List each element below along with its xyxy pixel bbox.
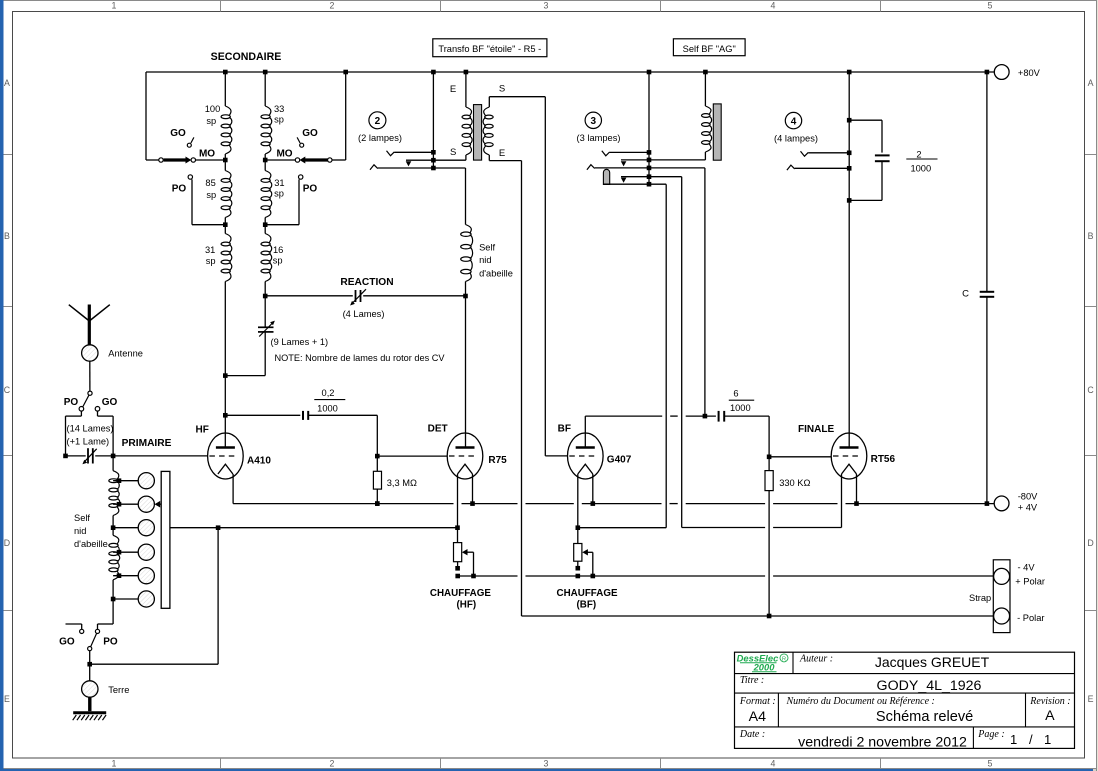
svg-text:Terre: Terre	[108, 685, 129, 695]
svg-text:-80V: -80V	[1018, 492, 1038, 502]
svg-text:NOTE: Nombre de lames du rotor: NOTE: Nombre de lames du rotor des CV	[275, 353, 446, 363]
svg-text:Strap: Strap	[969, 593, 991, 603]
svg-text:nid: nid	[74, 526, 86, 536]
svg-text:R: R	[782, 657, 786, 663]
svg-text:E: E	[1088, 694, 1094, 704]
svg-text:d'abeille: d'abeille	[479, 269, 513, 279]
svg-text:(9 Lames + 1): (9 Lames + 1)	[271, 337, 329, 347]
svg-text:E: E	[450, 84, 456, 95]
svg-text:Self: Self	[479, 243, 495, 253]
svg-text:A410: A410	[247, 456, 271, 467]
svg-text:3,3 MΩ: 3,3 MΩ	[387, 478, 417, 488]
svg-text:PO: PO	[172, 184, 187, 195]
svg-text:Transfo BF "étoile" - R5 -: Transfo BF "étoile" - R5 -	[438, 44, 541, 54]
svg-text:D: D	[1087, 538, 1093, 548]
svg-text:S: S	[499, 84, 505, 95]
svg-text:B: B	[1088, 231, 1094, 241]
svg-text:3: 3	[544, 0, 549, 10]
svg-text:- 4V: - 4V	[1018, 563, 1036, 573]
svg-text:E: E	[499, 148, 505, 159]
svg-text:1: 1	[112, 0, 117, 10]
svg-text:2: 2	[330, 759, 335, 769]
svg-text:(+1 Lame): (+1 Lame)	[67, 437, 110, 447]
svg-text:4: 4	[771, 0, 776, 10]
svg-text:Format :: Format :	[739, 696, 776, 707]
svg-text:1000: 1000	[317, 403, 338, 413]
svg-text:Schéma relevé: Schéma relevé	[876, 709, 973, 725]
svg-text:Date :: Date :	[739, 729, 765, 740]
svg-text:C: C	[4, 385, 11, 395]
svg-text:C: C	[962, 288, 969, 299]
svg-text:2: 2	[916, 149, 921, 159]
svg-text:6: 6	[733, 388, 738, 398]
svg-text:PO: PO	[103, 636, 118, 647]
svg-text:16: 16	[273, 245, 283, 255]
svg-text:CHAUFFAGE: CHAUFFAGE	[430, 588, 491, 599]
svg-text:Self: Self	[74, 513, 90, 523]
svg-text:(BF): (BF)	[577, 600, 597, 611]
svg-text:GO: GO	[170, 128, 186, 139]
svg-text:+ Polar: + Polar	[1015, 576, 1045, 586]
svg-text:PRIMAIRE: PRIMAIRE	[122, 438, 172, 449]
svg-text:(4 Lames): (4 Lames)	[343, 309, 385, 319]
svg-text:- Polar: - Polar	[1017, 613, 1044, 623]
svg-text:Auteur :: Auteur :	[799, 654, 833, 665]
svg-text:CHAUFFAGE: CHAUFFAGE	[557, 588, 618, 599]
svg-text:sp: sp	[274, 115, 284, 125]
svg-text:5: 5	[988, 759, 993, 769]
svg-text:Numéro du Document ou Référenc: Numéro du Document ou Référence :	[786, 696, 935, 707]
svg-text:A: A	[1088, 78, 1094, 88]
svg-text:(3 lampes): (3 lampes)	[577, 133, 621, 143]
svg-text:+ 4V: + 4V	[1018, 503, 1038, 513]
svg-text:sp: sp	[274, 189, 284, 199]
svg-text:SECONDAIRE: SECONDAIRE	[211, 51, 282, 63]
svg-text:Revision :: Revision :	[1029, 696, 1070, 707]
svg-text:GO: GO	[59, 636, 75, 647]
svg-text:(2 lampes): (2 lampes)	[358, 133, 402, 143]
svg-text:REACTION: REACTION	[340, 277, 393, 288]
svg-text:85: 85	[205, 178, 215, 188]
svg-text:PO: PO	[303, 184, 318, 195]
svg-text:Titre :: Titre :	[740, 675, 764, 686]
svg-text:3: 3	[591, 116, 597, 127]
svg-text:S: S	[450, 147, 456, 158]
svg-text:A: A	[4, 78, 10, 88]
svg-text:33: 33	[274, 104, 284, 114]
svg-text:sp: sp	[206, 116, 216, 126]
svg-text:Jacques GREUET: Jacques GREUET	[875, 654, 990, 670]
svg-text:1000: 1000	[730, 403, 751, 413]
svg-text:4: 4	[791, 117, 797, 128]
svg-text:d'abeille: d'abeille	[74, 539, 108, 549]
svg-text:0,2: 0,2	[322, 388, 335, 398]
svg-text:HF: HF	[196, 425, 209, 436]
svg-text:Antenne: Antenne	[108, 348, 143, 358]
svg-text:G407: G407	[607, 455, 632, 466]
svg-text:4: 4	[771, 759, 776, 769]
svg-text:B: B	[4, 231, 10, 241]
svg-text:A: A	[1045, 708, 1055, 724]
svg-text:R75: R75	[488, 455, 507, 466]
svg-text:100: 100	[205, 104, 221, 114]
svg-text:BF: BF	[558, 424, 571, 435]
svg-text:A4: A4	[749, 709, 766, 725]
svg-text:2: 2	[330, 0, 335, 10]
svg-text:D: D	[4, 538, 10, 548]
svg-text:sp: sp	[206, 190, 216, 200]
svg-text:(HF): (HF)	[457, 600, 477, 611]
svg-text:31: 31	[274, 178, 284, 188]
svg-text:Page :: Page :	[977, 729, 1004, 740]
svg-text:(14 Lames): (14 Lames)	[67, 423, 114, 433]
svg-text:sp: sp	[206, 256, 216, 266]
svg-text:1: 1	[1010, 732, 1017, 747]
svg-text:MO: MO	[276, 149, 292, 160]
svg-text:C: C	[1087, 385, 1094, 395]
svg-text:GO: GO	[102, 397, 118, 408]
svg-text:GODY_4L_1926: GODY_4L_1926	[877, 678, 982, 694]
svg-text:1: 1	[1044, 732, 1051, 747]
svg-text:2000: 2000	[753, 662, 776, 673]
svg-text:RT56: RT56	[871, 454, 896, 465]
svg-text:3: 3	[544, 759, 549, 769]
svg-text:GO: GO	[302, 128, 318, 139]
svg-text:5: 5	[988, 0, 993, 10]
svg-text:2: 2	[375, 116, 381, 127]
svg-text:+80V: +80V	[1018, 68, 1041, 78]
svg-text:sp: sp	[273, 256, 283, 266]
svg-text:1: 1	[112, 759, 117, 769]
svg-text:PO: PO	[64, 397, 79, 408]
svg-text:/: /	[1029, 732, 1033, 747]
svg-text:330 KΩ: 330 KΩ	[779, 478, 810, 488]
svg-text:FINALE: FINALE	[798, 424, 834, 435]
svg-text:(4 lampes): (4 lampes)	[774, 134, 818, 144]
svg-text:nid: nid	[479, 255, 491, 265]
svg-text:1000: 1000	[910, 164, 931, 174]
svg-text:E: E	[4, 694, 10, 704]
svg-text:DET: DET	[428, 424, 448, 435]
svg-text:31: 31	[205, 245, 215, 255]
svg-text:vendredi 2 novembre 2012: vendredi 2 novembre 2012	[798, 734, 967, 750]
svg-text:MO: MO	[199, 149, 215, 160]
svg-text:Self BF "AG": Self BF "AG"	[683, 44, 736, 54]
